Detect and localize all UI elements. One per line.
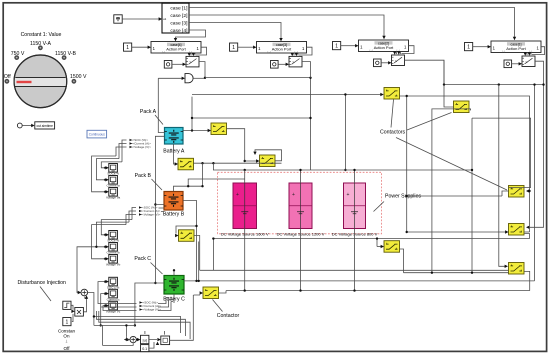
svg-text:Continuous: Continuous	[89, 133, 106, 137]
svg-text:+: +	[347, 192, 350, 198]
wires scope stack B	[92, 220, 132, 259]
battery B top rail	[174, 163, 245, 191]
const circle G4	[504, 60, 512, 68]
wire battery A right to contactor	[183, 130, 208, 132]
bus labels battery A	[130, 138, 152, 149]
source tag block feeding case	[114, 15, 122, 23]
step block	[63, 301, 71, 309]
svg-text:1500 V: 1500 V	[70, 74, 87, 80]
rail 238	[213, 234, 529, 271]
DC voltage source 1600V	[233, 183, 257, 229]
svg-text:1: 1	[66, 319, 69, 325]
scope SOC c %	[109, 277, 118, 286]
const circle G2	[271, 61, 279, 69]
svg-text:{...}: {...}	[502, 51, 506, 53]
disturbance sum feed	[77, 247, 96, 293]
svg-text:+: +	[292, 192, 295, 198]
wire const to A4	[473, 46, 488, 48]
svg-text:1: 1	[335, 43, 338, 49]
contactor yellow R1	[509, 186, 525, 198]
contactor A-bottom out rail	[194, 162, 282, 164]
sum circle bottom	[130, 336, 136, 342]
contactor yellow right1	[454, 101, 470, 113]
block out.simtime	[35, 122, 55, 129]
wire G4 switch out	[528, 61, 544, 227]
action subsystem case[2]	[359, 40, 409, 52]
wire case3 out	[189, 23, 281, 39]
output port circle	[17, 123, 22, 128]
svg-text:Contactor: Contactor	[217, 313, 240, 319]
wire const to A2	[238, 46, 254, 48]
bus labels battery B	[139, 206, 161, 217]
battery A bottom to contactor A-bottom	[174, 144, 176, 164]
battery C top wire	[173, 270, 175, 275]
svg-text:⇓: ⇓	[65, 339, 69, 344]
rail G1-G2	[205, 78, 311, 170]
dial tick dot	[14, 55, 19, 60]
bottom nested rails	[94, 311, 190, 339]
relational block	[161, 336, 170, 345]
battery C bottom to contactor C	[170, 294, 200, 300]
dial tick dot	[72, 79, 77, 84]
right yellow outs	[407, 191, 530, 291]
svg-text:Off: Off	[63, 346, 70, 351]
wire to out.simtime	[22, 125, 31, 127]
abs block [u]	[141, 335, 149, 343]
svg-text:Pack B: Pack B	[135, 173, 152, 179]
contactor yellow TL-right	[384, 241, 400, 253]
const 1 for A1	[124, 43, 132, 51]
svg-text:1: 1	[126, 45, 129, 51]
scope SOCb %	[109, 231, 118, 240]
wire top contactor out	[400, 96, 530, 232]
wire case4 out	[176, 30, 206, 39]
wire bus A rows	[116, 140, 127, 162]
svg-text:Action Port: Action Port	[374, 45, 394, 50]
sum circle disturbance	[81, 289, 88, 296]
switch under A3	[392, 55, 405, 66]
svg-text:Voltage Vb: Voltage Vb	[106, 263, 121, 267]
contactor yellow R3	[509, 263, 525, 275]
svg-text:out.simtime: out.simtime	[37, 124, 54, 128]
DC voltage source 1200V	[289, 183, 312, 229]
battery B right down to contactor B	[176, 201, 197, 281]
contactor B out	[194, 236, 200, 271]
svg-text:1: 1	[467, 44, 470, 50]
svg-text:Disturbance Injection: Disturbance Injection	[18, 280, 67, 286]
const 1 for A4	[465, 43, 473, 51]
dial tick dot	[5, 79, 10, 84]
svg-text:<Voltage (V)>: <Voltage (V)>	[142, 213, 161, 217]
contactor yellow R2	[509, 224, 525, 236]
scope Voltage Vc	[109, 301, 118, 310]
contactor yellow mid	[260, 155, 276, 167]
svg-text:Action Port: Action Port	[272, 47, 292, 52]
svg-text:Pack A: Pack A	[140, 109, 157, 115]
action subsystem case[4]	[151, 42, 201, 54]
DC voltage source 800V	[344, 183, 366, 229]
contactor yellow A-top	[211, 123, 227, 135]
scope Voltage Va	[109, 188, 118, 197]
contactor top	[384, 88, 400, 100]
wire constc to switch G3	[381, 62, 388, 64]
wire case2 out	[189, 15, 384, 37]
source verticals	[245, 170, 355, 291]
contactor yellow A-bottom	[178, 158, 194, 170]
wire constc to switch G2	[278, 63, 286, 65]
Continuous annotation	[87, 130, 107, 138]
wire gate out	[193, 77, 205, 79]
svg-text:Battery B: Battery B	[163, 212, 185, 218]
action subsystem case[3]	[257, 42, 307, 54]
dial tick dot	[62, 55, 67, 60]
const 1 bottom	[63, 318, 71, 326]
action subsystem case[1]	[491, 41, 541, 53]
const 1 for A2	[230, 43, 238, 51]
const circle G1	[164, 61, 172, 69]
scope Current ic	[109, 289, 118, 298]
wires scope stack A	[92, 156, 122, 192]
svg-text:Battery A: Battery A	[163, 149, 185, 155]
svg-text:{...}: {...}	[162, 51, 166, 53]
battery A	[165, 128, 184, 145]
switch under A1	[186, 56, 199, 67]
svg-text:case [4]: case [4]	[170, 28, 188, 34]
switch under A2	[289, 56, 302, 67]
rail 232	[407, 231, 506, 233]
rail y84	[444, 85, 544, 281]
battery A left wires	[155, 78, 164, 283]
battery C left loop	[135, 283, 164, 325]
wires disturbance group	[71, 305, 73, 321]
wires into bottom sum row	[103, 325, 165, 345]
battery B	[164, 192, 183, 211]
vertical battery A feed	[192, 97, 311, 131]
wire const to A3	[341, 45, 356, 47]
AND gate	[185, 74, 193, 83]
wire G3 switch out	[405, 60, 445, 84]
svg-text:0.1: 0.1	[142, 347, 147, 351]
svg-text:Pack C: Pack C	[134, 256, 151, 262]
wire const to A1	[132, 46, 148, 48]
rail y96	[192, 95, 381, 171]
scope Current ia	[109, 176, 118, 185]
rail 270	[200, 269, 509, 271]
wire gate in	[158, 77, 183, 79]
svg-text:Constant 1: Value: Constant 1: Value	[21, 32, 62, 38]
scope Voltage Vb	[109, 255, 118, 264]
contactor yellow B	[179, 230, 195, 242]
right column wires	[432, 85, 531, 273]
battery C	[164, 276, 184, 295]
wires scope stack C	[98, 282, 137, 326]
svg-text:Power Supplies: Power Supplies	[385, 194, 421, 200]
dial tick dot	[38, 45, 43, 50]
wires bottom group	[124, 339, 129, 341]
A3 out hook	[397, 46, 415, 54]
wire case1 out	[189, 8, 515, 38]
bus labels battery C	[140, 301, 162, 312]
svg-text:Action Port: Action Port	[166, 47, 186, 52]
wire tag to case block	[122, 18, 159, 20]
wire G1 switch out	[199, 62, 205, 78]
svg-text:{...}: {...}	[268, 51, 272, 53]
svg-text:case [1]: case [1]	[170, 6, 188, 12]
battery B left bus	[155, 205, 164, 212]
svg-text:1: 1	[232, 45, 235, 51]
switch-case block u1	[162, 3, 189, 33]
const 1 for A3	[333, 42, 341, 50]
contactor yellow C (labelled)	[203, 287, 219, 299]
switch under A4	[522, 56, 535, 67]
svg-text:Voltage Va: Voltage Va	[106, 196, 121, 200]
svg-text:case [3]: case [3]	[170, 20, 188, 26]
rail 272 to R3	[404, 272, 509, 274]
wire G3 drop	[443, 60, 445, 84]
svg-text:{...}: {...}	[370, 50, 374, 52]
red dashed power supplies box	[218, 172, 382, 234]
svg-text:case [2]: case [2]	[170, 13, 188, 19]
scope Current ib	[109, 243, 118, 252]
svg-text:On: On	[63, 334, 70, 339]
scope SOCa %	[109, 164, 118, 173]
A1 out hook	[191, 47, 207, 55]
svg-text:+: +	[236, 192, 239, 198]
wire bus C rows	[158, 298, 173, 311]
A4 out hook	[527, 47, 545, 55]
contactor TL-right wires	[377, 246, 381, 248]
wire bus B rows	[126, 208, 136, 225]
contactor mid loop	[255, 150, 282, 161]
product block	[75, 308, 84, 317]
wire constc to switch G4	[512, 63, 519, 65]
wire G2 switch out	[302, 62, 311, 78]
dial needle red	[17, 81, 32, 83]
svg-text:Contactors: Contactors	[380, 130, 405, 136]
const circle G3	[374, 59, 382, 67]
contactor A-top out	[227, 129, 257, 161]
svg-text:|u|: |u|	[143, 338, 147, 343]
svg-text:<Voltage (V)>: <Voltage (V)>	[143, 308, 162, 312]
wire constc to switch G1	[172, 63, 183, 65]
knob dial Constant 1	[4, 32, 87, 108]
A2 out hook	[294, 47, 312, 55]
svg-text:<Voltage (V)>: <Voltage (V)>	[133, 145, 152, 149]
svg-text:u1: u1	[163, 17, 167, 21]
contactor C out bottom rail	[219, 291, 530, 293]
const 0.1 block	[141, 345, 149, 352]
svg-text:Action Port: Action Port	[506, 46, 526, 51]
